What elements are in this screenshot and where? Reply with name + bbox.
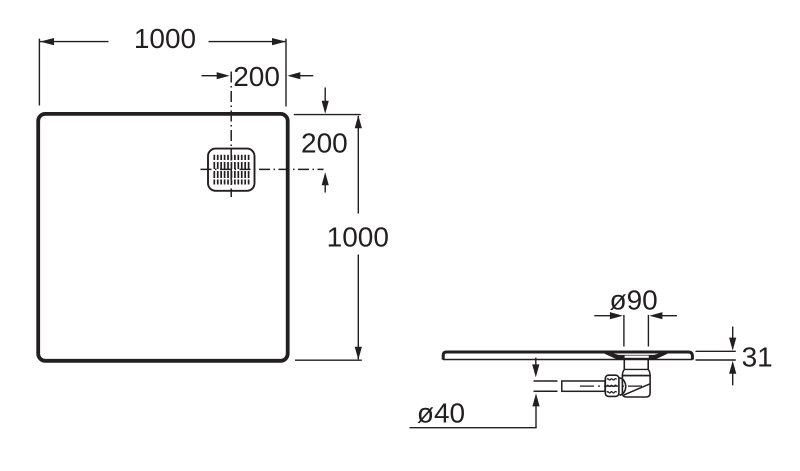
side view: pipe centerline: [580, 385, 643, 387]
vertical centerline through drain: [230, 72, 232, 198]
svg-text:200: 200: [233, 61, 280, 92]
dim o90: left extension line: [623, 315, 625, 347]
dim 200 top: left arrow shaft: [202, 75, 218, 77]
drain grate hatch: [214, 155, 248, 185]
dim 200 top: right arrow shaft: [300, 75, 313, 77]
side view: tray top surface with end caps: [443, 352, 692, 360]
dim o40: leader vertical line: [535, 406, 537, 428]
dim o40: upper down arrow shaft: [535, 358, 537, 366]
side view: nut rib 2: [607, 385, 617, 386]
dim o90: left arrowhead (pointing right): [610, 312, 623, 319]
dim 1000 top: right arrowhead: [272, 38, 286, 45]
dim 1000 top: left arrowhead: [40, 38, 54, 45]
dim 1000 right: dimension line upper segment: [357, 116, 359, 214]
side view: pipe break line bottom: [534, 390, 558, 392]
side view: drain cover slot: [625, 356, 649, 358]
svg-text:ø90: ø90: [609, 285, 657, 316]
dim 1000 top: right extension line: [285, 39, 287, 107]
dim 200 right: down arrow shaft: [324, 88, 326, 102]
dim 200 top: left arrowhead (pointing right): [217, 72, 230, 79]
dim 1000 right: dimension line lower segment: [357, 255, 359, 360]
side view: tray bottom line: [443, 359, 693, 361]
drain grate outline: [208, 149, 255, 191]
dim 1000 right: bottom extension line: [295, 359, 362, 361]
dim 200 right: up arrowhead: [322, 172, 329, 185]
dim 1000 top: dimension line left segment: [40, 41, 109, 43]
svg-text:31: 31: [742, 341, 773, 372]
svg-text:200: 200: [301, 128, 348, 159]
svg-text:ø40: ø40: [417, 398, 465, 429]
shower tray outline (plan view): [38, 114, 288, 361]
dim 31: bottom extension line: [696, 359, 736, 361]
dim 31: down arrow shaft: [732, 327, 734, 339]
dim 31: up arrowhead: [729, 361, 736, 374]
svg-text:1000: 1000: [327, 222, 389, 253]
svg-text:1000: 1000: [134, 23, 196, 54]
side view: drain trough band: [604, 351, 669, 359]
horizontal centerline through drain: [201, 168, 324, 170]
dim 200 right: top extension line: [294, 114, 361, 116]
dim 1000 right: down arrowhead: [355, 347, 362, 360]
dim 200 top: right arrowhead (pointing left): [287, 72, 300, 79]
dim o40: lower up arrowhead: [532, 393, 539, 406]
dim 200 right: down arrowhead: [322, 101, 329, 114]
dim 1000 top: left extension line: [38, 39, 40, 106]
dim o90: right arrowhead (pointing left): [649, 312, 662, 319]
side view: neck flare right: [648, 369, 650, 375]
side view: drain neck shoulder: [624, 368, 648, 370]
dim o90: right extension line: [647, 315, 649, 347]
side view: trap body diagonal: [624, 384, 650, 395]
dim o90: right arrow shaft: [662, 315, 677, 317]
side view: pipe break line top: [534, 380, 558, 382]
side view: ball joint arc: [620, 378, 626, 395]
side view: drain neck right wall: [647, 360, 649, 369]
dim o90: left arrow shaft: [594, 315, 610, 317]
dim o40: upper down arrowhead: [532, 364, 539, 377]
dim 31: down arrowhead: [729, 338, 736, 351]
side view: nut rib 3: [607, 392, 617, 393]
dim o40: leader horizontal line: [410, 427, 537, 429]
side view: drain neck left wall: [623, 360, 625, 369]
side view: trap nut (ribbed): [605, 375, 619, 396]
dim 200 right: up arrow shaft: [324, 185, 326, 193]
dim 31: up arrow shaft: [732, 373, 734, 385]
dim 1000 right: up arrowhead: [355, 115, 362, 128]
side view: trap body: [622, 376, 650, 397]
dim 31: top extension line: [696, 350, 736, 352]
side view: neck flare left: [622, 369, 624, 375]
side view: trap body upper line: [622, 375, 651, 377]
side view: horizontal pipe: [562, 381, 605, 391]
side view: nut rib 1: [607, 379, 617, 380]
dim 1000 top: dimension line right segment: [209, 41, 286, 43]
